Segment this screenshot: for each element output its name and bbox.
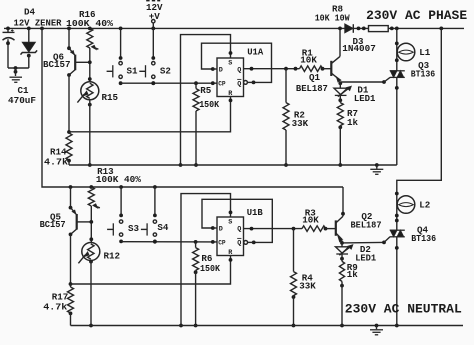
ground mid rail [370,165,383,174]
label S1 [127,65,139,76]
label R8 [332,4,344,15]
wire Q5 collector [69,233,73,285]
label R1 [302,47,314,58]
resistor R6 [193,242,199,271]
label 1N4007 [342,43,376,54]
svg-text:D: D [219,226,223,234]
svg-text:LED1: LED1 [355,253,376,264]
wire R5 to mid rail [194,111,198,167]
label Q6 [53,52,64,63]
transistor Q5 [71,208,92,235]
wire U1A Q to R1 [244,67,300,71]
svg-text:CP: CP [218,81,226,88]
label BC157 [43,59,71,70]
svg-text:1k: 1k [347,117,359,128]
label 1k top [347,117,359,128]
label Q5 [50,211,62,222]
label 100K 40% bottom [96,174,141,185]
svg-text:S2: S2 [160,65,171,76]
label 150K top [199,99,219,110]
label R4 [302,272,314,283]
label D4 [24,7,36,18]
label L1 [419,47,431,58]
svg-text:100K 40%: 100K 40% [66,18,114,29]
svg-text:S: S [228,218,232,226]
pin D U1B [219,226,223,234]
resistor R16 [87,28,93,48]
label BC157 bottom [40,219,66,230]
switch S2 [139,62,155,86]
label R17 [52,292,69,303]
svg-text:R12: R12 [104,250,121,261]
node mid rail ground tap [375,163,379,167]
wire phase to L2 [395,28,441,230]
wire Q1 emitter to Q3 gate [340,77,390,84]
wire Q5 emitter feed [69,185,73,209]
resistor R7 [337,95,343,167]
label R5 [200,85,212,96]
ground top-left [10,77,23,82]
svg-text:L1: L1 [419,47,431,58]
svg-text:100K 40%: 100K 40% [96,174,141,185]
wire S1-S2 to CP U1A [121,81,217,85]
label R7 [347,108,358,119]
node C1 tap on rail [6,27,10,31]
svg-text:BC157: BC157 [40,219,66,230]
diode D4 zener [21,28,38,68]
svg-text:230V AC PHASE: 230V AC PHASE [366,9,467,23]
node Q1 emitter [338,81,342,85]
capacitor C1 [3,28,15,68]
pin R U1B [228,249,233,257]
pin D U1A [219,67,223,75]
LED D1 [334,82,351,102]
triac Q3 [390,71,405,78]
label 230V AC NEUTRAL [345,303,462,317]
label cropped +12 top [146,0,160,1]
svg-text:150K: 150K [199,99,219,110]
node R17 top [69,282,73,286]
label LED1 bottom [355,253,376,264]
wiper arrow R16 [92,45,99,49]
label 12V ZENER [14,17,62,28]
label S2 [160,65,171,76]
label 4.7k top [44,157,69,168]
node Q2 emitter [340,241,344,245]
pin S U1B [228,218,232,226]
label R15 [102,92,119,103]
svg-text:R15: R15 [102,92,119,103]
label 1k bottom [347,269,359,280]
wire +12V top rail [4,27,464,29]
wire Q6 emitter feed [67,28,71,50]
svg-text:BT136: BT136 [411,233,436,244]
resistor R3 [302,226,326,232]
lamp L1 [397,43,415,61]
svg-text:10K: 10K [302,214,319,225]
transistor Q2 [336,187,345,242]
label 230V AC PHASE [366,9,467,23]
resistor R13 [88,185,94,206]
label LED1 top [354,93,376,104]
node L2 rail tap [439,27,443,31]
node rail R8 out [390,27,394,31]
wire R pin line B [71,256,233,285]
label L2 [419,200,430,211]
resistor R4 [291,229,297,328]
label Q2 [361,211,372,222]
wire L1 branch [395,27,399,71]
wire R16 to R15 [88,48,92,82]
wire S3 feed [119,185,123,217]
LED D2 [336,243,353,261]
svg-text:CP: CP [218,240,226,247]
wire U1A R pin [69,97,232,132]
wire Q4 to neutral [395,237,399,328]
node S1 tap [119,27,123,31]
wire S4 feed [153,185,157,217]
node left vertical tap [40,27,44,31]
label R14 [50,147,67,158]
pin Qbar U1B [237,238,241,247]
label R9 [347,262,358,273]
resistor R14 [66,133,72,165]
wire Q6 collector to R14 [67,73,71,134]
label R16 [79,9,96,20]
label 12V top [146,2,163,13]
resistor R5 [193,83,199,111]
pin Qbar U1A [237,79,241,88]
wire mid rail [69,164,397,166]
wiper arrow R13 [93,204,100,208]
svg-text:4.7k: 4.7k [43,302,68,313]
triac Q4 [390,230,405,237]
lamp L2 [397,196,415,214]
label D2 [360,244,371,255]
node +V terminal junction [151,27,155,31]
label C1 [18,85,30,96]
label R12 [104,250,121,261]
bubble Qbar U1A [244,81,248,85]
wire R15 to mid rail [88,100,92,167]
svg-text:D4: D4 [24,7,36,18]
svg-text:4.7k: 4.7k [44,157,69,168]
svg-text:D: D [219,67,223,75]
svg-text:S3: S3 [128,223,140,234]
label 10K 10W [315,12,350,23]
label BT136 top [411,69,436,80]
svg-text:33K: 33K [292,118,309,129]
wire U1B set line [179,194,232,328]
switch S3 [107,220,123,243]
svg-text:Q: Q [237,81,241,89]
node R16 tap [88,27,92,31]
wire S2 feed [151,28,155,59]
wire U1A feedback Qbar to D [202,43,272,84]
wire R12 to neutral rail [89,260,93,328]
label Q3 [418,60,430,71]
resistor R8 box [369,26,389,32]
svg-text:Q1: Q1 [309,72,321,83]
wire R13 to R12 [89,206,93,243]
svg-text:470uF: 470uF [8,95,36,106]
svg-text:BT136: BT136 [411,69,436,80]
wire C1-D4 junction [8,66,29,76]
wire R1 to Q1 base [321,67,332,71]
label R6 [201,253,212,264]
resistor R2 [283,69,289,167]
svg-text:Q: Q [237,226,241,234]
pin Q U1B [237,226,241,234]
label Q1 [309,72,321,83]
svg-text:U1A: U1A [247,47,263,58]
wire U1B feedback Qbar to D [202,199,272,244]
label 10K bottom [302,214,319,225]
label 33K bottom [299,281,316,292]
label 4.7k bottom [43,302,68,313]
pin S U1A [228,59,232,67]
label BT136 bottom [411,233,436,244]
wire U1B Q to R3 [244,227,303,231]
transistor Q1 [331,27,342,82]
svg-text:Q: Q [237,67,241,75]
switch S4 [141,220,157,243]
label S3 [128,223,140,234]
op-amp U1A flip-flop box [217,58,244,97]
label +V top [149,11,161,22]
svg-text:R5: R5 [200,85,212,96]
svg-text:BC157: BC157 [43,59,71,70]
terminal +V [152,20,155,29]
label 10K top [300,54,317,65]
label S4 [157,222,169,233]
transistor Q6 [69,48,90,75]
label U1A [247,47,263,58]
wire R6 to neutral [194,270,198,327]
svg-text:Q: Q [237,240,241,248]
svg-text:10K: 10K [300,54,317,65]
svg-text:S1: S1 [127,65,139,76]
label R3 [305,208,317,219]
bubble Qbar U1B [244,241,248,245]
wire Q3 to mid rail [395,77,399,165]
svg-text:+V: +V [149,11,161,22]
label 150K bottom [200,263,220,274]
pin CP U1B [218,240,226,247]
LDR R15 [77,82,98,103]
wire neutral bottom rail [71,325,464,327]
svg-text:BEL187: BEL187 [296,83,328,94]
svg-text:33K: 33K [299,281,316,292]
node neutral ground tap [375,324,379,328]
label 33K top [292,118,309,129]
svg-text:1k: 1k [347,269,359,280]
wire Q2 emitter to Q4 gate [342,237,390,245]
node Q6 tap [67,27,71,31]
diode D3 [345,24,366,33]
label R13 [97,166,114,177]
svg-text:10K 10W: 10K 10W [315,12,350,23]
svg-text:S4: S4 [157,222,169,233]
label U1B [247,207,263,218]
svg-text:L2: L2 [419,200,430,211]
LDR R12 [78,243,99,264]
wire S1 feed [119,28,123,59]
svg-text:230V AC NEUTRAL: 230V AC NEUTRAL [345,303,462,317]
svg-text:U1B: U1B [247,207,263,218]
svg-text:LED1: LED1 [354,93,376,104]
pin R U1A [228,90,233,98]
svg-text:BEL187: BEL187 [351,219,382,230]
svg-text:12V ZENER: 12V ZENER [14,17,62,28]
label D3 [353,36,365,47]
svg-text:1N4007: 1N4007 [342,43,376,54]
wire R3 to Q2 base [324,227,336,231]
label D1 [357,84,369,95]
label BEL187 top [296,83,328,94]
resistor R17 [68,284,74,326]
ground bottom rail [370,326,383,335]
resistor R9 [339,254,344,327]
wire S3-S4 to CP U1B [121,240,217,244]
node D4 tap on rail [27,27,31,31]
wire left vertical to lower rail [42,28,343,187]
svg-text:150K: 150K [200,263,220,274]
svg-text:S: S [228,59,232,67]
wire U1A set line [179,35,233,167]
label R2 [294,109,305,120]
switch S1 [107,62,123,86]
label Q4 [417,224,429,235]
label BEL187 bottom [351,219,382,230]
label 470uF [8,95,36,106]
pin Q U1A [237,67,241,75]
pin CP U1A [218,81,226,88]
label 100K 40% top [66,18,114,29]
resistor R1 [300,66,323,72]
op-amp U1B flip-flop box [217,217,244,256]
